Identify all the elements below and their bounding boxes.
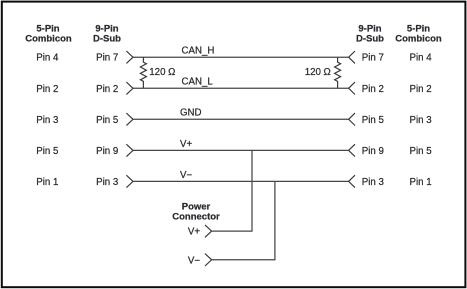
header: Power Connector	[172, 201, 220, 222]
pin arrow: left D-Sub Pin 5	[126, 113, 133, 125]
svg-text:V+: V+	[180, 139, 192, 150]
svg-text:D-Sub: D-Sub	[356, 34, 384, 45]
connector header: right 5-Pin Combicon	[395, 24, 442, 45]
svg-text:CAN_H: CAN_H	[182, 46, 215, 57]
svg-text:Pin 9: Pin 9	[362, 146, 384, 157]
pin arrow: right D-Sub Pin 5	[349, 113, 355, 125]
svg-text:Pin 5: Pin 5	[362, 115, 384, 126]
wire V- bus	[133, 180, 349, 182]
wire CAN_H	[133, 56, 349, 58]
svg-text:Pin 1: Pin 1	[36, 177, 58, 188]
connector header: left 9-Pin D-Sub	[93, 24, 121, 45]
svg-text:Pin 9: Pin 9	[96, 146, 118, 157]
svg-text:Pin 5: Pin 5	[36, 146, 58, 157]
svg-text:Pin 3: Pin 3	[96, 177, 118, 188]
svg-text:120 Ω: 120 Ω	[305, 67, 331, 78]
svg-text:Pin 3: Pin 3	[36, 115, 58, 126]
resistor 120 ohm right termination	[335, 57, 341, 88]
svg-text:Pin 5: Pin 5	[96, 115, 118, 126]
wire: power V- lead (horizontal then riser up to V- bus)	[212, 181, 275, 259]
svg-text:Pin 4: Pin 4	[36, 53, 59, 64]
pin arrow: left D-Sub Pin 7	[126, 51, 133, 63]
svg-text:V+: V+	[188, 227, 200, 238]
svg-text:Connector: Connector	[172, 212, 220, 223]
wire: power V+ lead (horizontal then riser up to V+ bus)	[212, 150, 252, 231]
connector header: right 9-Pin D-Sub	[356, 24, 384, 45]
resistor 120 ohm left termination	[140, 57, 146, 88]
svg-text:V−: V−	[180, 170, 192, 181]
svg-text:Pin 2: Pin 2	[410, 84, 432, 95]
svg-text:V−: V−	[188, 255, 200, 266]
pin arrow: left D-Sub Pin 3	[126, 175, 133, 187]
svg-text:GND: GND	[180, 108, 202, 119]
pin arrow: power connector V+	[205, 225, 212, 237]
pin arrow: right D-Sub Pin 9	[349, 144, 355, 156]
connector header: left 5-Pin Combicon	[25, 24, 72, 45]
wire CAN_L	[133, 87, 349, 89]
svg-text:Pin 7: Pin 7	[96, 53, 118, 64]
svg-text:Pin 7: Pin 7	[362, 53, 384, 64]
svg-text:D-Sub: D-Sub	[93, 34, 121, 45]
svg-text:Pin 5: Pin 5	[410, 146, 432, 157]
pin arrow: left D-Sub Pin 9	[126, 144, 133, 156]
wire V+ bus	[133, 149, 349, 151]
svg-text:Pin 2: Pin 2	[36, 84, 58, 95]
svg-text:CAN_L: CAN_L	[182, 77, 214, 88]
svg-text:Pin 2: Pin 2	[362, 84, 384, 95]
svg-text:Pin 2: Pin 2	[96, 84, 118, 95]
svg-text:Combicon: Combicon	[25, 34, 72, 45]
wire GND	[133, 118, 349, 120]
pin arrow: power connector V-	[205, 254, 212, 266]
svg-text:120 Ω: 120 Ω	[149, 67, 175, 78]
svg-text:Pin 3: Pin 3	[362, 177, 384, 188]
svg-text:Pin 3: Pin 3	[410, 115, 432, 126]
pin arrow: right D-Sub Pin 3	[349, 175, 355, 187]
pin arrow: left D-Sub Pin 2	[126, 82, 133, 94]
pin arrow: right D-Sub Pin 7	[349, 51, 355, 63]
svg-text:Pin 4: Pin 4	[410, 53, 433, 64]
svg-text:Combicon: Combicon	[395, 34, 442, 45]
svg-text:Power: Power	[182, 201, 211, 212]
svg-text:Pin 1: Pin 1	[410, 177, 432, 188]
pin arrow: right D-Sub Pin 2	[349, 82, 355, 94]
